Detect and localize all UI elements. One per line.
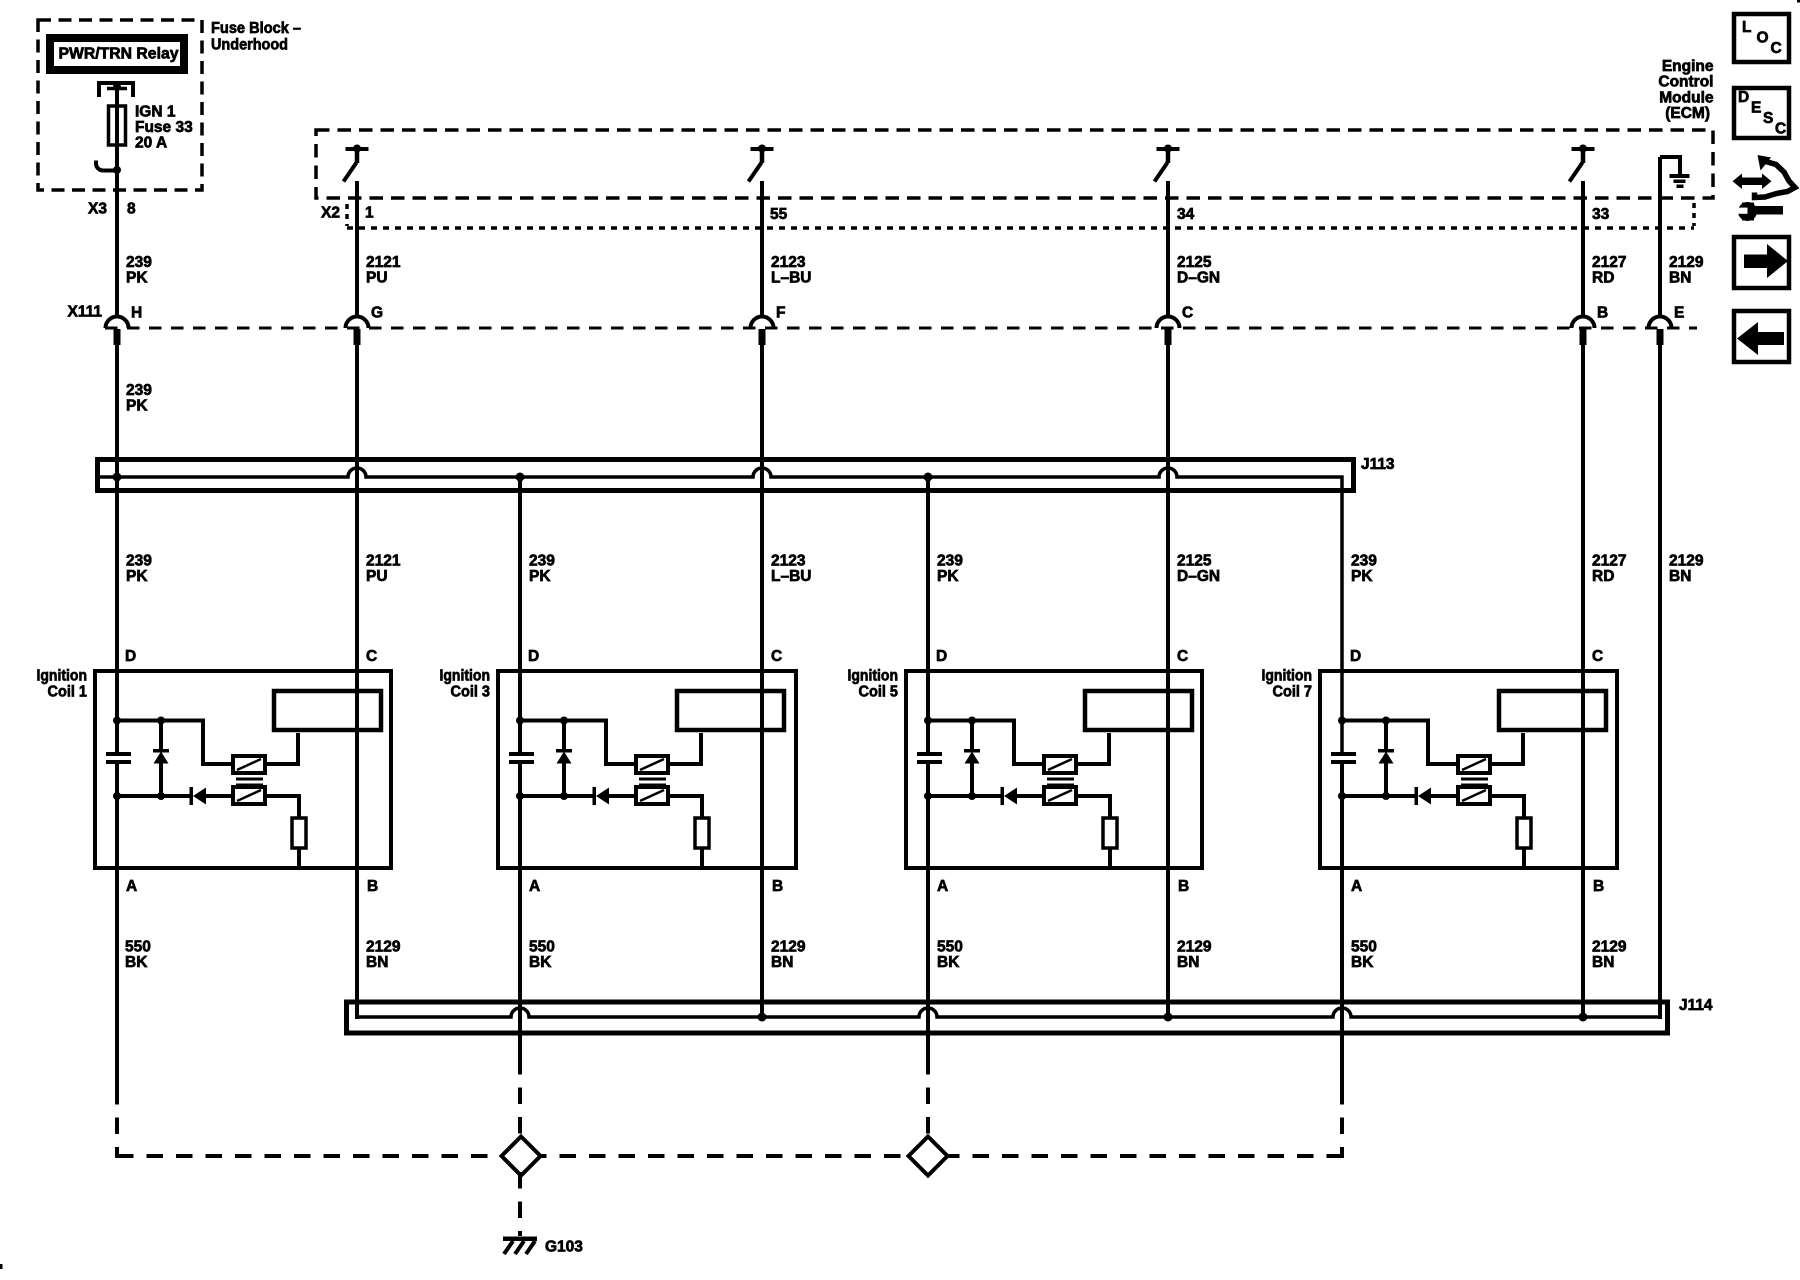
wire 239 PK (X111 H down through J113 to coil1 D) xyxy=(115,345,119,754)
svg-text:2129: 2129 xyxy=(366,938,401,955)
coil1 resistor xyxy=(292,818,306,848)
coil7 resistor xyxy=(1517,818,1531,848)
coil3 wire to resistor xyxy=(668,796,702,818)
coil3 winding block xyxy=(677,691,784,730)
wire 239 PK (J113 to coil3 D) xyxy=(518,477,522,754)
svg-text:B: B xyxy=(1178,878,1189,895)
svg-text:BK: BK xyxy=(937,954,960,971)
svg-text:BK: BK xyxy=(125,954,148,971)
svg-text:A: A xyxy=(126,878,137,895)
coil5 lower internal wire xyxy=(928,794,1002,798)
svg-text:2127: 2127 xyxy=(1592,552,1626,569)
svg-text:Engine: Engine xyxy=(1662,58,1714,75)
coil1 isolator box lower xyxy=(233,787,265,804)
relay output terminal dot xyxy=(113,83,121,91)
coil7 zener diode xyxy=(1384,721,1388,753)
icon DESC box xyxy=(1734,88,1789,138)
wire 2129 BN (ECM ground to X111 E) xyxy=(1658,157,1662,317)
svg-text:A: A xyxy=(937,878,948,895)
connector X111 (dashed line) xyxy=(105,327,1697,330)
J114 junction dot coil3 B xyxy=(758,1013,767,1022)
svg-text:E: E xyxy=(1751,99,1761,116)
coil3 wire to primary winding xyxy=(668,733,701,764)
coil7 isolation barrier xyxy=(1461,778,1488,781)
svg-text:Coil 7: Coil 7 xyxy=(1273,684,1313,701)
coil3 isolator box upper xyxy=(636,756,668,773)
svg-text:X3: X3 xyxy=(88,200,107,217)
svg-text:D–GN: D–GN xyxy=(1177,568,1220,585)
coil5 wire to resistor xyxy=(1076,796,1110,818)
svg-text:550: 550 xyxy=(937,938,963,955)
coil3 isolator box lower xyxy=(636,787,668,804)
J114 junction dot coil5 B xyxy=(1164,1013,1173,1022)
coil1 zener diode xyxy=(159,721,163,753)
ground G103 xyxy=(503,1237,537,1255)
svg-text:B: B xyxy=(1597,304,1608,321)
svg-text:C: C xyxy=(771,648,782,665)
svg-text:A: A xyxy=(1351,878,1362,895)
wire 550 BK (coil5 A down through J114) xyxy=(926,762,930,1058)
svg-text:550: 550 xyxy=(125,938,151,955)
relay contact switch xyxy=(96,161,117,171)
ECM output driver U2 driver pin 55 xyxy=(749,145,774,182)
svg-text:Ignition: Ignition xyxy=(440,668,491,685)
svg-text:BN: BN xyxy=(1669,269,1691,286)
svg-text:A: A xyxy=(529,878,540,895)
J114 junction dot coil7 B xyxy=(1579,1013,1588,1022)
svg-text:2121: 2121 xyxy=(366,552,401,569)
svg-text:C: C xyxy=(1775,120,1786,137)
svg-text:X111: X111 xyxy=(68,303,103,320)
svg-text:D: D xyxy=(125,648,136,665)
coil3 lower internal wire xyxy=(520,794,594,798)
X111 terminal F xyxy=(751,317,774,346)
J114 bus line with hops xyxy=(357,1008,1660,1017)
ECM output driver U4 driver pin 33 xyxy=(1570,145,1595,182)
svg-text:(ECM): (ECM) xyxy=(1665,105,1710,122)
wire 2121 PU (X111 G to coil1 C) xyxy=(355,345,359,1019)
svg-text:Fuse 33: Fuse 33 xyxy=(135,119,193,136)
svg-text:G103: G103 xyxy=(545,1238,583,1255)
coil7 wire to resistor xyxy=(1490,796,1524,818)
dashed ground bus horizontal xyxy=(117,1154,1342,1158)
ECM output driver U3 driver pin 34 xyxy=(1155,145,1180,182)
svg-text:Ignition: Ignition xyxy=(37,668,88,685)
coil3 junction dots xyxy=(516,717,524,725)
svg-text:550: 550 xyxy=(529,938,555,955)
svg-text:L–BU: L–BU xyxy=(771,568,811,585)
coil3 capacitor xyxy=(509,752,534,756)
svg-text:C: C xyxy=(1771,40,1782,57)
svg-text:E: E xyxy=(1674,304,1684,321)
coil1 isolator box upper xyxy=(233,756,265,773)
svg-text:C: C xyxy=(366,648,377,665)
J113 junction dot coil5 feed xyxy=(924,473,933,482)
svg-text:2129: 2129 xyxy=(1592,938,1627,955)
svg-text:PK: PK xyxy=(1351,568,1373,585)
engine control module ECM (dashed box) xyxy=(316,130,1713,198)
svg-text:C: C xyxy=(1177,648,1188,665)
svg-text:BN: BN xyxy=(1592,954,1614,971)
coil5 top internal wire xyxy=(928,721,1044,765)
svg-text:B: B xyxy=(367,878,378,895)
svg-text:PK: PK xyxy=(529,568,551,585)
coil5 isolation barrier xyxy=(1047,778,1074,781)
coil7 diode xyxy=(1415,787,1419,805)
svg-text:BK: BK xyxy=(529,954,552,971)
X111 terminal G xyxy=(346,317,369,346)
dashed ground wire coil5 A xyxy=(926,1058,930,1140)
coil3 top internal wire xyxy=(520,721,636,765)
ECM output driver U1 driver pin 1 xyxy=(344,145,369,182)
svg-text:Underhood: Underhood xyxy=(211,36,288,53)
icon repair info (arrows and wrench) xyxy=(1731,155,1795,221)
svg-text:B: B xyxy=(1593,878,1604,895)
coil3 zener diode xyxy=(562,721,566,753)
coil3 isolation barrier xyxy=(639,778,666,781)
svg-text:G: G xyxy=(371,304,383,321)
svg-text:PWR/TRN Relay: PWR/TRN Relay xyxy=(59,45,179,62)
J113 junction dot coil1 feed xyxy=(113,473,122,482)
svg-text:Fuse Block –: Fuse Block – xyxy=(211,20,301,37)
coil7 winding block xyxy=(1499,691,1606,730)
icon back arrow box xyxy=(1734,311,1789,362)
ignition coil 3 xyxy=(440,648,797,895)
svg-text:RD: RD xyxy=(1592,269,1614,286)
svg-text:2129: 2129 xyxy=(1669,254,1704,271)
dashed ground wire coil3 A xyxy=(518,1058,522,1140)
svg-text:J113: J113 xyxy=(1361,456,1395,473)
coil5 isolator box upper xyxy=(1044,756,1076,773)
svg-text:1: 1 xyxy=(365,204,374,221)
svg-text:Module: Module xyxy=(1659,89,1714,106)
svg-text:BN: BN xyxy=(1669,568,1691,585)
coil5 resistor xyxy=(1103,818,1117,848)
svg-text:C: C xyxy=(1182,304,1193,321)
coil5 wire to primary winding xyxy=(1076,733,1109,764)
svg-text:PU: PU xyxy=(366,568,388,585)
svg-text:BN: BN xyxy=(366,954,388,971)
coil5 capacitor xyxy=(917,752,942,756)
coil7 lower internal wire xyxy=(1342,794,1416,798)
svg-text:2123: 2123 xyxy=(771,254,806,271)
svg-text:33: 33 xyxy=(1592,206,1610,223)
svg-text:239: 239 xyxy=(126,254,152,271)
splice diamond S1 xyxy=(502,1137,541,1176)
svg-text:PK: PK xyxy=(126,568,148,585)
svg-text:L: L xyxy=(1742,19,1751,36)
junction block J113 xyxy=(98,460,1354,491)
X111 terminal E xyxy=(1649,317,1672,346)
svg-text:PK: PK xyxy=(126,397,148,414)
svg-text:BK: BK xyxy=(1351,954,1374,971)
fuse IGN 1 Fuse 33 20 A xyxy=(109,106,126,145)
svg-text:BN: BN xyxy=(1177,954,1199,971)
junction block J114 xyxy=(347,1002,1668,1033)
corner mark bottom left xyxy=(0,1264,3,1269)
svg-text:D–GN: D–GN xyxy=(1177,269,1220,286)
coil7 isolator box upper xyxy=(1458,756,1490,773)
coil3 diode xyxy=(593,787,597,805)
svg-text:2127: 2127 xyxy=(1592,254,1626,271)
coil1 winding block xyxy=(274,691,381,730)
svg-text:D: D xyxy=(936,648,947,665)
wire 2121 PU (pin1 to X111 G) xyxy=(355,181,359,317)
ignition coil 1 xyxy=(37,648,392,895)
coil7 capacitor xyxy=(1331,752,1356,756)
svg-text:34: 34 xyxy=(1177,206,1195,223)
svg-text:239: 239 xyxy=(529,552,555,569)
svg-text:Coil 3: Coil 3 xyxy=(451,684,491,701)
dashed ground wire coil1 A xyxy=(115,1088,119,1158)
wire 239 PK (J113 to coil5 D) xyxy=(926,477,930,754)
svg-text:X2: X2 xyxy=(321,204,340,221)
coil7 wire to primary winding xyxy=(1490,733,1523,764)
coil3 resistor xyxy=(695,818,709,848)
X111 terminal B xyxy=(1572,317,1595,346)
ECM connector strip (dotted) xyxy=(347,226,1694,230)
wire 550 BK (coil7 A down through J114) xyxy=(1340,762,1344,1090)
dashed ground wire coil7 A xyxy=(1340,1088,1344,1158)
svg-text:Ignition: Ignition xyxy=(848,668,899,685)
coil1 isolation barrier xyxy=(236,778,263,781)
coil5 winding block xyxy=(1085,691,1192,730)
svg-text:F: F xyxy=(776,304,785,321)
icon LOC box xyxy=(1734,14,1789,62)
wire 2123 L-BU (X111 F to coil3 C) xyxy=(760,345,764,1019)
wire 2127 RD (X111 B to coil7 C) xyxy=(1581,345,1585,1019)
svg-text:Coil 5: Coil 5 xyxy=(859,684,899,701)
svg-text:J114: J114 xyxy=(1679,997,1713,1014)
wire 550 BK (coil1 A down) xyxy=(115,762,119,1090)
svg-text:2121: 2121 xyxy=(366,254,401,271)
wire 2123 L-BU (pin55 to X111 F) xyxy=(760,181,764,317)
X111 terminal H xyxy=(106,317,129,346)
coil1 wire to primary winding xyxy=(265,733,298,764)
svg-text:550: 550 xyxy=(1351,938,1377,955)
svg-text:PU: PU xyxy=(366,269,388,286)
coil1 junction dots xyxy=(113,717,121,725)
wire 2125 D-GN (pin34 to X111 C) xyxy=(1166,181,1170,317)
coil1 capacitor xyxy=(106,752,131,756)
wire 239 PK inside fuse block xyxy=(115,84,119,317)
coil7 junction dots xyxy=(1338,717,1346,725)
svg-text:20 A: 20 A xyxy=(135,134,167,151)
svg-text:2129: 2129 xyxy=(771,938,806,955)
fuse block underhood (dashed box) xyxy=(38,20,202,190)
coil7 top internal wire xyxy=(1342,721,1458,765)
coil5 diode xyxy=(1001,787,1005,805)
svg-text:2129: 2129 xyxy=(1177,938,1212,955)
svg-text:C: C xyxy=(1592,648,1603,665)
coil5 zener diode xyxy=(970,721,974,753)
wire 2129 BN (X111 E to J114) xyxy=(1658,345,1662,1019)
svg-text:55: 55 xyxy=(770,206,788,223)
svg-text:B: B xyxy=(772,878,783,895)
ECM internal ground symbol xyxy=(1660,157,1690,188)
coil7 isolator box lower xyxy=(1458,787,1490,804)
svg-text:H: H xyxy=(131,304,142,321)
svg-text:Ignition: Ignition xyxy=(1262,668,1313,685)
svg-text:D: D xyxy=(1350,648,1361,665)
svg-text:PK: PK xyxy=(937,568,959,585)
fuse holder bracket xyxy=(99,83,133,97)
svg-text:Control: Control xyxy=(1658,74,1713,91)
coil1 lower internal wire xyxy=(117,794,191,798)
svg-text:239: 239 xyxy=(126,552,152,569)
coil5 junction dots xyxy=(924,717,932,725)
X111 terminal C xyxy=(1157,317,1180,346)
svg-text:O: O xyxy=(1757,29,1769,46)
svg-text:2129: 2129 xyxy=(1669,552,1704,569)
svg-text:L–BU: L–BU xyxy=(771,269,811,286)
svg-text:239: 239 xyxy=(126,382,152,399)
svg-text:239: 239 xyxy=(1351,552,1377,569)
svg-text:IGN 1: IGN 1 xyxy=(135,103,176,120)
icon forward arrow box xyxy=(1734,237,1789,288)
coil1 diode xyxy=(190,787,194,805)
svg-text:8: 8 xyxy=(127,200,136,217)
svg-text:239: 239 xyxy=(937,552,963,569)
svg-text:D: D xyxy=(528,648,539,665)
PWR/TRN Relay xyxy=(50,38,184,70)
wire 550 BK (coil3 A down through J114) xyxy=(518,762,522,1058)
coil1 wire to resistor xyxy=(265,796,299,818)
J113 junction dot coil3 feed xyxy=(516,473,525,482)
wire 2127 RD (pin33 to X111 B) xyxy=(1581,181,1585,317)
splice diamond S2 xyxy=(909,1137,948,1176)
svg-text:D: D xyxy=(1738,89,1749,106)
svg-text:RD: RD xyxy=(1592,568,1614,585)
J113 bus line with hops, feeds coil7 D xyxy=(99,468,1342,754)
svg-text:2123: 2123 xyxy=(771,552,806,569)
coil1 top internal wire xyxy=(117,721,233,765)
svg-text:PK: PK xyxy=(126,269,148,286)
wire 2125 D-GN (X111 C to coil5 C) xyxy=(1166,345,1170,1019)
svg-text:BN: BN xyxy=(771,954,793,971)
dashed wire to G103 xyxy=(518,1172,522,1236)
svg-text:Coil 1: Coil 1 xyxy=(48,684,88,701)
svg-text:2125: 2125 xyxy=(1177,254,1212,271)
svg-text:S: S xyxy=(1763,110,1773,127)
ignition coil 7 xyxy=(1262,648,1618,895)
corner mark top right xyxy=(1797,0,1800,3)
svg-text:2125: 2125 xyxy=(1177,552,1212,569)
ignition coil 5 xyxy=(848,648,1203,895)
coil5 isolator box lower xyxy=(1044,787,1076,804)
